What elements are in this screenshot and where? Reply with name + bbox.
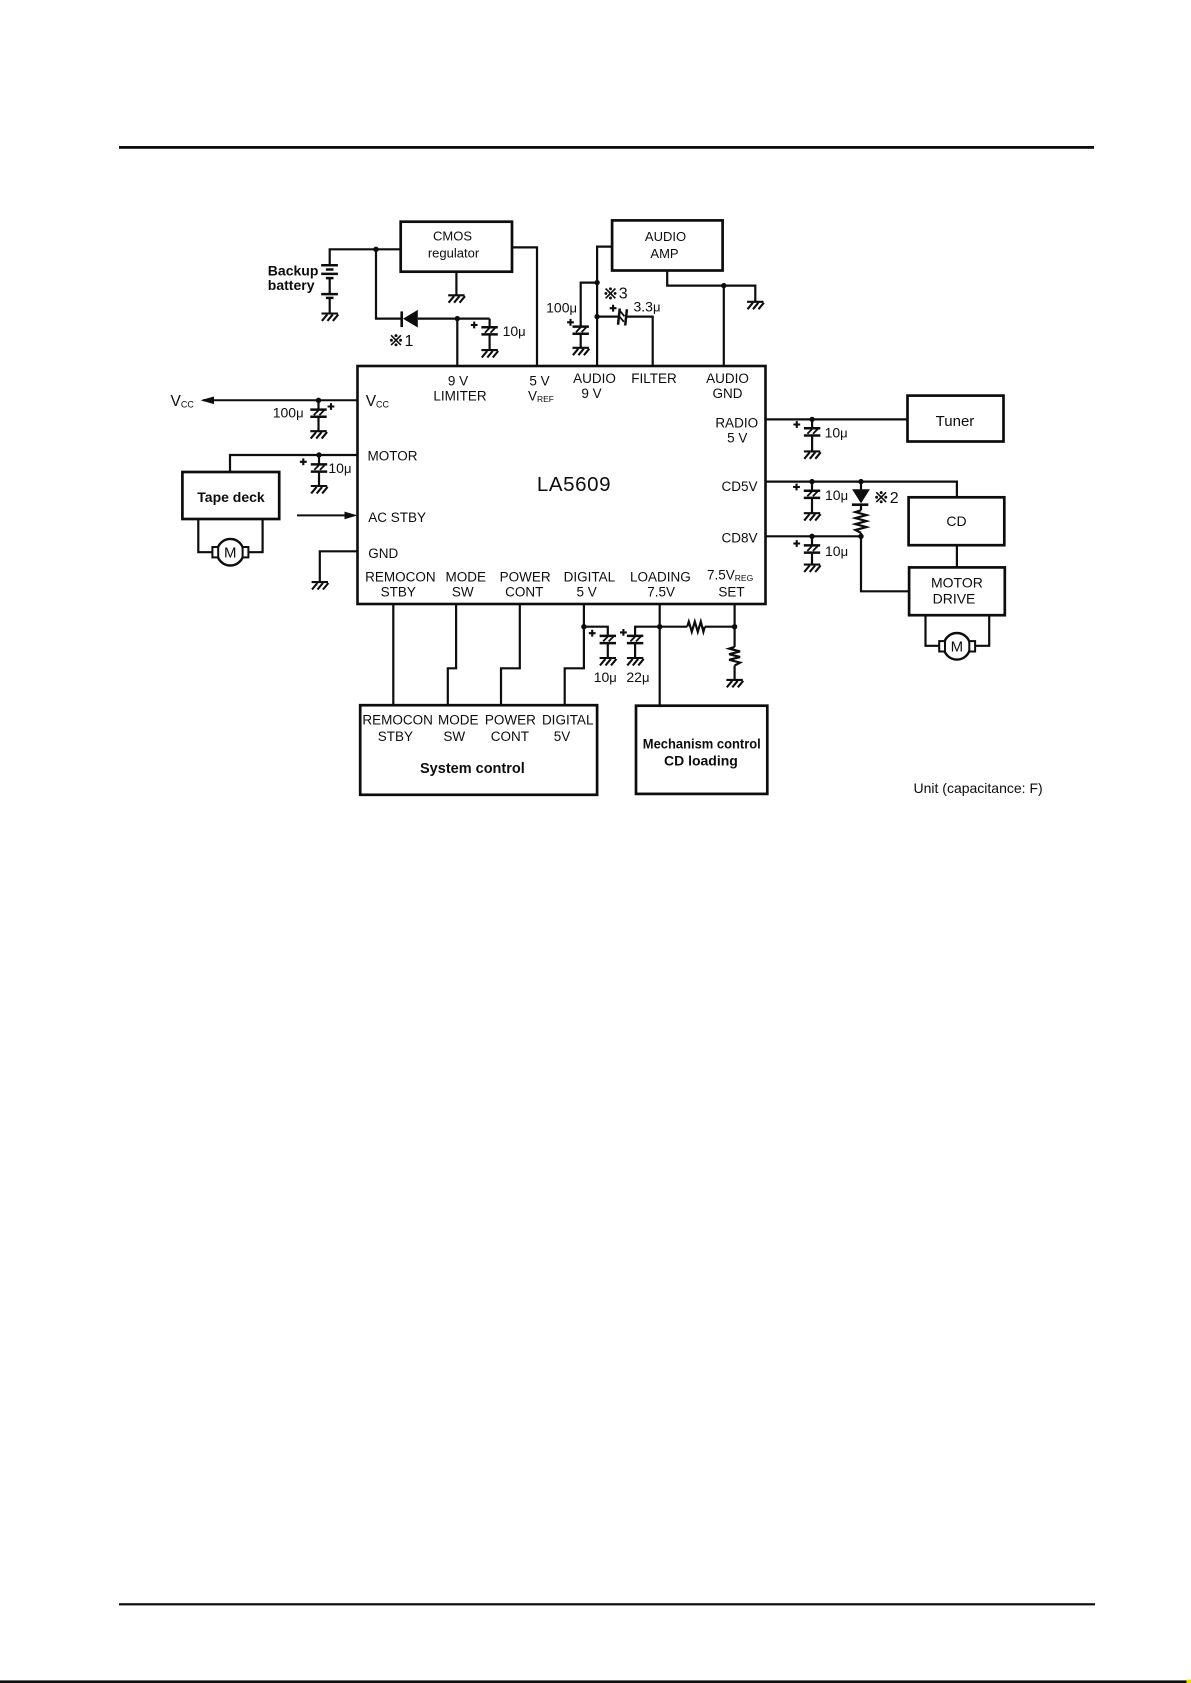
wire R1 to CD8V bbox=[860, 533, 862, 536]
wire tape deck to motor left bbox=[198, 519, 212, 552]
page bottom edge scan line bbox=[0, 1680, 1191, 1683]
wire motor drive to motor right bbox=[975, 615, 989, 646]
svg-text:POWER: POWER bbox=[500, 569, 551, 584]
svg-text:CD loading: CD loading bbox=[664, 752, 738, 768]
capacitor C9 10u at DIGITAL 5V bbox=[584, 627, 617, 685]
label reference mark 1 bbox=[390, 333, 414, 350]
node battery/diode junction bbox=[373, 247, 378, 252]
svg-text:5 V: 5 V bbox=[529, 373, 549, 388]
wire 7.5VREG SET pin down bbox=[733, 604, 735, 647]
svg-text:AUDIO: AUDIO bbox=[706, 371, 749, 386]
svg-text:10μ: 10μ bbox=[503, 323, 526, 339]
motor M1 (tape deck) bbox=[212, 539, 248, 566]
svg-text:M: M bbox=[224, 545, 237, 562]
wire POWER CONT pin down bbox=[501, 604, 520, 705]
motor M2 (CD loading) bbox=[939, 633, 975, 660]
capacitor C5 10u at MOTOR bbox=[300, 455, 352, 486]
AUDIO AMP box bbox=[612, 220, 723, 270]
capacitor C4 100u at Vcc bbox=[273, 400, 335, 431]
svg-text:CMOS: CMOS bbox=[433, 229, 472, 244]
wire R3 to ground bbox=[733, 666, 735, 680]
node LOADING junction bbox=[657, 624, 662, 629]
svg-text:STBY: STBY bbox=[378, 729, 413, 744]
node CD8V diode junction bbox=[858, 534, 863, 539]
svg-text:REMOCON: REMOCON bbox=[365, 569, 436, 584]
pin label POWER CONT bbox=[500, 569, 551, 599]
node RADIO 5V junction bbox=[809, 417, 814, 422]
ground at AUDIO AMP bbox=[747, 302, 764, 309]
wire filter cap to FILTER pin bbox=[627, 317, 653, 366]
top horizontal rule bbox=[119, 146, 1094, 149]
svg-text:DRIVE: DRIVE bbox=[933, 590, 976, 606]
capacitor C7 10u at CD5V bbox=[793, 482, 848, 513]
wire LOADING 7.5V pin down bbox=[659, 604, 661, 706]
svg-text:battery: battery bbox=[268, 277, 315, 293]
svg-text:VREF: VREF bbox=[528, 389, 554, 405]
Tuner box bbox=[908, 396, 1004, 442]
svg-text:SW: SW bbox=[452, 585, 474, 600]
diode D1 (backup, cathode left) bbox=[402, 310, 418, 328]
svg-text:GND: GND bbox=[713, 386, 743, 401]
svg-text:10μ: 10μ bbox=[825, 543, 848, 559]
capacitor C8 10u at CD8V bbox=[793, 536, 848, 564]
svg-text:AC STBY: AC STBY bbox=[368, 510, 426, 525]
svg-text:SET: SET bbox=[718, 585, 744, 600]
CMOS regulator box bbox=[401, 222, 512, 272]
ground below C5 bbox=[311, 486, 328, 493]
pin label MODE SW bbox=[446, 569, 487, 599]
wire GND pin to ground bbox=[320, 551, 358, 582]
svg-text:DIGITAL: DIGITAL bbox=[542, 712, 594, 727]
wire motor drive to motor left bbox=[926, 615, 940, 646]
svg-text:MODE: MODE bbox=[438, 712, 479, 727]
node CD5V cap junction bbox=[809, 479, 814, 484]
diode D2 (CD5V to CD8V) bbox=[852, 482, 870, 511]
ground below C2 bbox=[573, 348, 590, 355]
svg-text:CONT: CONT bbox=[505, 585, 543, 600]
wire CD8V to motor drive bbox=[766, 536, 910, 591]
svg-text:CD8V: CD8V bbox=[721, 530, 757, 545]
svg-text:AUDIO: AUDIO bbox=[573, 371, 616, 386]
svg-text:MOTOR: MOTOR bbox=[931, 574, 983, 590]
label reference mark 3 bbox=[604, 286, 627, 303]
node 9V LIMITER junction bbox=[455, 316, 460, 321]
node MOTOR junction bbox=[316, 452, 321, 457]
svg-text:10μ: 10μ bbox=[825, 487, 848, 503]
CD box bbox=[909, 497, 1005, 545]
backup battery label bbox=[268, 263, 319, 293]
svg-text:Tape deck: Tape deck bbox=[197, 489, 265, 505]
wire REMOCON STBY pin down bbox=[392, 604, 394, 705]
svg-text:LOADING: LOADING bbox=[630, 569, 691, 584]
svg-text:LA5609: LA5609 bbox=[537, 473, 611, 496]
svg-text:Unit (capacitance: F): Unit (capacitance: F) bbox=[914, 780, 1043, 796]
IC LA5609 body U1 bbox=[358, 366, 766, 604]
svg-text:CD5V: CD5V bbox=[721, 479, 757, 494]
pin label 9V LIMITER bbox=[433, 373, 487, 403]
pin label RADIO 5V bbox=[715, 415, 758, 445]
System control box bbox=[360, 705, 597, 795]
svg-text:10μ: 10μ bbox=[328, 460, 351, 476]
svg-text:7.5V: 7.5V bbox=[647, 585, 675, 600]
wire RADIO 5V to tuner bbox=[766, 418, 908, 420]
svg-text:5V: 5V bbox=[554, 729, 571, 744]
wire junction down to diode bbox=[376, 249, 401, 318]
svg-text:GND: GND bbox=[368, 546, 398, 561]
svg-text:STBY: STBY bbox=[381, 585, 416, 600]
svg-text:9 V: 9 V bbox=[581, 386, 601, 401]
svg-text:100μ: 100μ bbox=[546, 300, 577, 316]
ground below CMOS regulator bbox=[448, 295, 465, 302]
wire battery top to CMOS regulator bbox=[330, 249, 401, 265]
wire R2 to SET node bbox=[705, 626, 735, 628]
ground stem from CMOS regulator bbox=[455, 272, 457, 295]
svg-text:100μ: 100μ bbox=[273, 404, 304, 420]
svg-text:10μ: 10μ bbox=[825, 425, 848, 441]
wire AUDIO AMP bottom to AUDIO GND bbox=[667, 271, 755, 302]
pin label AUDIO GND bbox=[706, 371, 749, 401]
svg-text:DIGITAL: DIGITAL bbox=[564, 569, 616, 584]
bottom horizontal rule bbox=[119, 1603, 1095, 1605]
svg-text:MODE: MODE bbox=[446, 569, 487, 584]
ground below C10 bbox=[627, 658, 644, 665]
ground below C6 bbox=[804, 451, 821, 458]
wire CMOS regulator to 5V VREF pin bbox=[512, 247, 537, 366]
MOTOR DRIVE box bbox=[909, 567, 1005, 615]
Vcc output arrow bbox=[201, 397, 358, 405]
svg-text:M: M bbox=[951, 639, 964, 656]
Tape deck box bbox=[182, 472, 279, 519]
ground below C7 bbox=[804, 513, 821, 520]
svg-text:RADIO: RADIO bbox=[715, 415, 758, 430]
svg-text:FILTER: FILTER bbox=[631, 371, 677, 386]
svg-text:5 V: 5 V bbox=[576, 585, 596, 600]
svg-text:VCC: VCC bbox=[366, 393, 390, 410]
scan artifact yellow corner bbox=[1187, 1680, 1191, 1683]
pin label 5V VREF bbox=[528, 373, 554, 404]
node Vcc junction bbox=[316, 398, 321, 403]
svg-text:LIMITER: LIMITER bbox=[433, 389, 487, 404]
svg-text:POWER: POWER bbox=[485, 712, 536, 727]
ground at GND pin bbox=[312, 582, 329, 589]
svg-text:SW: SW bbox=[443, 729, 465, 744]
node AUDIO 9V lower junction bbox=[594, 314, 599, 319]
svg-text:9 V: 9 V bbox=[448, 373, 468, 388]
ground below C4 bbox=[310, 431, 327, 438]
wire diode to 9V LIMITER node bbox=[418, 318, 490, 320]
ground below C9 bbox=[600, 658, 617, 665]
node CD8V cap junction bbox=[809, 534, 814, 539]
svg-text:CD: CD bbox=[946, 513, 966, 529]
node CD5V diode junction bbox=[858, 479, 863, 484]
resistor R3 (SET to ground) bbox=[729, 647, 740, 666]
node DIGITAL 5V junction bbox=[581, 624, 586, 629]
capacitor C3 3.3u (FILTER) bbox=[610, 299, 661, 326]
AC STBY input arrow bbox=[297, 512, 358, 520]
wire MODE SW pin down bbox=[448, 604, 456, 705]
svg-text:3.3μ: 3.3μ bbox=[634, 299, 661, 315]
ground below R3 bbox=[726, 680, 743, 687]
svg-text:VCC: VCC bbox=[171, 393, 195, 410]
wire DIGITAL 5V pin down bbox=[565, 604, 584, 705]
svg-text:MOTOR: MOTOR bbox=[368, 448, 418, 463]
pin label REMOCON STBY bbox=[365, 569, 436, 599]
svg-text:CONT: CONT bbox=[491, 729, 529, 744]
ground below C8 bbox=[804, 565, 821, 572]
svg-text:1: 1 bbox=[405, 333, 414, 350]
wire MOTOR pin to tape deck bbox=[230, 455, 358, 472]
svg-text:7.5VREG: 7.5VREG bbox=[707, 567, 753, 583]
capacitor C6 10u at RADIO 5V bbox=[793, 419, 847, 451]
wire to filter capacitor bbox=[597, 316, 619, 318]
svg-text:5 V: 5 V bbox=[727, 430, 747, 445]
svg-text:Tuner: Tuner bbox=[936, 413, 975, 430]
wire AUDIO GND pin stub bbox=[723, 286, 725, 366]
pin label DIGITAL 5V bbox=[564, 569, 616, 599]
wire CD to MOTOR DRIVE bbox=[956, 545, 958, 567]
capacitor C10 22u at LOADING bbox=[620, 627, 660, 685]
svg-text:3: 3 bbox=[619, 286, 628, 303]
wire tape deck to motor right bbox=[249, 519, 263, 552]
wire CD5V to CD box bbox=[766, 482, 957, 498]
svg-text:Mechanism control: Mechanism control bbox=[643, 735, 761, 751]
pin label AUDIO 9V bbox=[573, 371, 616, 401]
pin label LOADING 7.5V bbox=[630, 569, 691, 599]
node AUDIO 9V upper junction bbox=[594, 280, 599, 285]
resistor R2 (LOADING to 7.5VREG SET) bbox=[687, 622, 705, 632]
wire 9V LIMITER pin stub bbox=[456, 319, 458, 366]
svg-text:regulator: regulator bbox=[428, 246, 480, 261]
capacitor C1 10u at 9V LIMITER bbox=[471, 319, 526, 350]
wire LOADING to R2 bbox=[660, 626, 688, 628]
svg-text:2: 2 bbox=[890, 490, 899, 507]
ground below C1 bbox=[481, 350, 498, 357]
ground below battery bbox=[322, 314, 339, 321]
svg-text:22μ: 22μ bbox=[626, 669, 649, 685]
battery BT1 bbox=[321, 265, 338, 313]
label reference mark 2 bbox=[875, 490, 899, 507]
node 7.5VREG SET junction bbox=[732, 624, 737, 629]
svg-text:10μ: 10μ bbox=[594, 669, 617, 685]
svg-text:AMP: AMP bbox=[650, 246, 678, 261]
resistor R1 (below D2) bbox=[855, 510, 866, 533]
capacitor C2 100u at AUDIO 9V bbox=[546, 283, 597, 348]
svg-text:System control: System control bbox=[420, 761, 525, 777]
svg-text:REMOCON: REMOCON bbox=[362, 712, 433, 727]
pin label 7.5VREG SET bbox=[707, 567, 753, 599]
wire AUDIO AMP left to AUDIO 9V pin bbox=[597, 247, 612, 366]
node AUDIO GND junction bbox=[721, 283, 726, 288]
Mechanism control box bbox=[636, 706, 767, 794]
svg-text:AUDIO: AUDIO bbox=[645, 229, 686, 244]
